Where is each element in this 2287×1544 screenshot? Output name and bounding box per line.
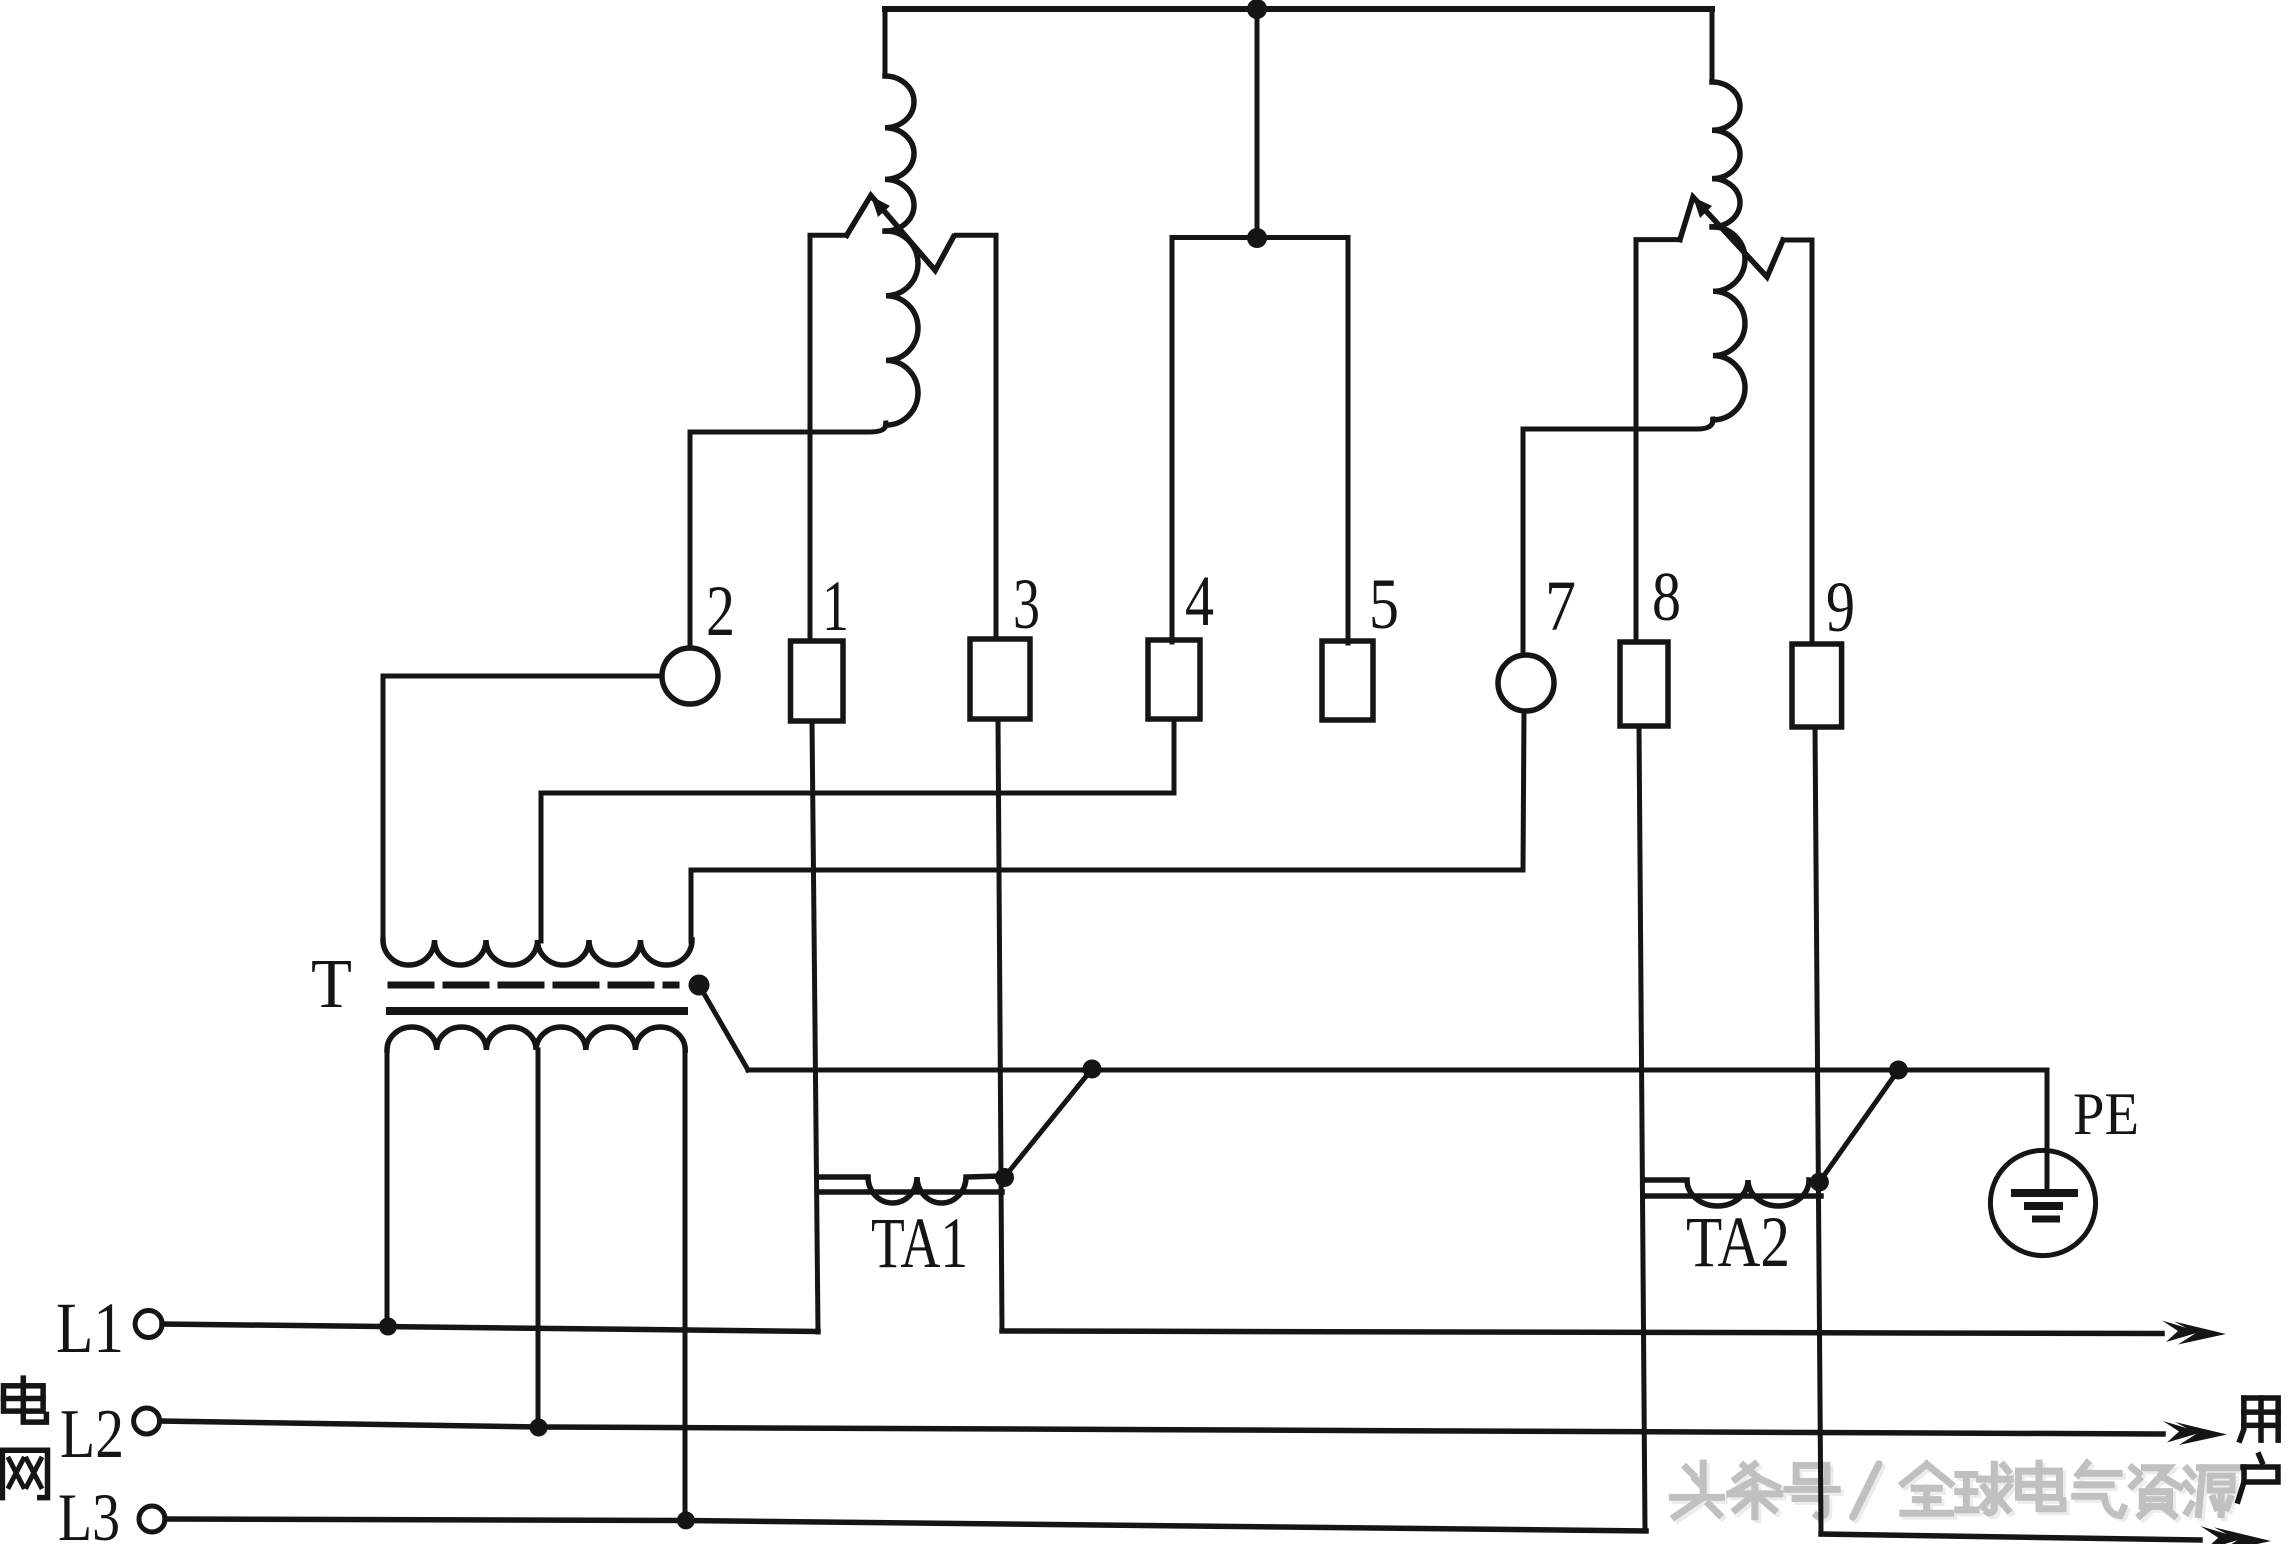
junction: screen tap node (689, 975, 710, 996)
label: terminal 2 (706, 571, 735, 651)
terminal 1 (box) (791, 641, 844, 721)
terminal: L2 source (circle) (134, 1408, 160, 1434)
terminal 4 (box) (1148, 640, 1200, 719)
arrow: L2 to user (2163, 1421, 2227, 1445)
transformer T secondary winding (top) (383, 940, 692, 965)
wire: diagonal PE bus to TA2 secondary (1819, 1070, 1898, 1182)
label: user (yong) (2240, 1398, 2278, 1440)
arrow: L1 to user (2162, 1321, 2226, 1345)
coil: element 2 lower winding (1713, 227, 1745, 420)
TA1 primary conductor (818, 1189, 1002, 1195)
arrow: element 1 adjustment arrow (847, 195, 954, 270)
watermark text (1672, 1463, 2239, 1517)
junction: top bus node (1247, 0, 1267, 19)
wire: terminal 5 top riser (1346, 238, 1351, 644)
wire: element 1 coil bottom to terminal 2 (690, 423, 886, 648)
junction: TA1 secondary right node (995, 1168, 1014, 1187)
junction: primary lead on L1 (379, 1318, 397, 1336)
wire: mid horizontal joining terminal 4 and 5 risers (1172, 235, 1348, 240)
label: terminal 3 (1013, 564, 1040, 644)
TA2 secondary winding (1645, 1180, 1819, 1206)
wire: transformer primary mid lead to L2 (536, 1050, 541, 1428)
svg-text:9: 9 (1826, 567, 1855, 647)
transformer T screen (dashed) (391, 982, 676, 989)
wire: terminal 3 bottom riser to TA1 (998, 719, 1002, 1331)
wire: element 2 top lead (1710, 9, 1715, 82)
terminal: L1 source (circle) (135, 1311, 162, 1338)
svg-text:L3: L3 (58, 1479, 120, 1544)
wire: transformer primary right lead to L3 (683, 1050, 688, 1521)
transformer T primary winding (bottom) (387, 1027, 685, 1050)
ground bar 1 (2011, 1189, 2078, 1197)
coil: element 1 lower winding (886, 231, 918, 425)
wire: L3 right section (1821, 1534, 2200, 1540)
wire: terminal 4 top riser (1170, 238, 1175, 643)
arrowhead: element 1 arrow (871, 196, 890, 217)
ground bar 3 (2032, 1216, 2060, 1223)
transformer T core (386, 1007, 688, 1015)
wire: screen tap diagonal to PE bus (699, 985, 748, 1070)
wire: PE bus drop to earth (2045, 1070, 2050, 1193)
junction: mid node above terminals 4-5 (1247, 228, 1267, 248)
wire: terminal 1 bottom riser to TA1 (812, 721, 818, 1332)
terminal 2 (circle) (662, 648, 718, 704)
label: L2 (60, 1396, 124, 1473)
label: terminal 1 (822, 566, 849, 646)
wire: terminal 3 top riser (956, 235, 996, 639)
watermark highlight (1675, 1466, 2242, 1520)
svg-text:L1: L1 (56, 1288, 124, 1368)
arrowhead: element 2 arrow (1693, 197, 1712, 218)
label: grid (dian) (4, 1378, 47, 1422)
wire: L3 left section (165, 1519, 1646, 1531)
svg-text:3: 3 (1013, 564, 1040, 644)
coil: element 1 upper winding (885, 76, 914, 231)
svg-text:TA2: TA2 (1686, 1202, 1790, 1282)
junction: PE bus to TA1 secondary (1083, 1060, 1102, 1079)
junction: PE bus to TA2 secondary (1889, 1061, 1908, 1080)
wire: terminal 4 bottom lead to transformer mid tap (541, 721, 1174, 941)
label: TA1 (871, 1203, 968, 1283)
label: terminal 8 (1652, 559, 1681, 636)
svg-text:4: 4 (1185, 561, 1214, 641)
arrow: L3 to user (2201, 1526, 2271, 1544)
terminal 8 (box) (1620, 642, 1668, 726)
coil: element 2 upper winding (1712, 82, 1740, 227)
svg-text:8: 8 (1652, 559, 1681, 636)
arrow: element 2 adjustment arrow (1680, 197, 1783, 277)
junction: primary right lead on L3 (677, 1511, 695, 1529)
svg-text:T: T (311, 946, 352, 1023)
wire: terminal 9 top riser (1783, 240, 1812, 644)
wire: diagonal PE bus to TA1 secondary (1005, 1069, 1093, 1177)
junction: TA2 secondary right node (1810, 1173, 1829, 1192)
wire: element 1 top lead (883, 9, 888, 76)
wire: element 2 coil bottom to terminal 7 (1523, 419, 1713, 655)
earth electrode PE (circle) (1990, 1150, 2095, 1255)
label: TA2 (1686, 1202, 1790, 1282)
wire: top voltage bus (885, 6, 1712, 12)
svg-text:L2: L2 (60, 1396, 124, 1473)
terminal 3 (box) (970, 639, 1030, 719)
terminal 5 (box) (1322, 641, 1373, 720)
label: terminal 5 (1369, 564, 1399, 644)
wire: terminal 8 bottom riser to TA2 (1639, 726, 1645, 1531)
svg-text:7: 7 (1545, 566, 1576, 646)
ground bar 2 (2024, 1202, 2063, 1210)
svg-text:PE: PE (2073, 1081, 2139, 1147)
wire: L2 line (160, 1421, 2163, 1434)
wire: L1 left section (162, 1324, 818, 1332)
label: terminal 4 (1185, 561, 1214, 641)
label: user (hu) (2238, 1455, 2278, 1501)
label: transformer T (311, 946, 352, 1023)
junction: primary mid lead on L2 (530, 1419, 548, 1437)
wire: top bus down to mid node (1255, 9, 1260, 238)
label: terminal 7 (1545, 566, 1576, 646)
terminal 7 (circle) (1498, 655, 1554, 711)
terminal 9 (box) (1792, 644, 1842, 727)
wire: L1 right section (1002, 1331, 2162, 1334)
label: grid (wang) (2, 1450, 47, 1497)
wire: terminal 2 left lead to transformer (383, 676, 662, 941)
wire: terminal 9 bottom riser to TA2 (1815, 727, 1821, 1534)
svg-text:2: 2 (706, 571, 735, 651)
label: L3 (58, 1479, 120, 1544)
wire: transformer primary lead to L1 (385, 1050, 390, 1327)
TA2 primary conductor (1646, 1193, 1821, 1199)
svg-text:1: 1 (822, 566, 849, 646)
label: terminal 9 (1826, 567, 1855, 647)
wire: terminal 1 top riser (810, 235, 847, 641)
terminal: L3 source (circle) (139, 1506, 165, 1532)
svg-text:TA1: TA1 (871, 1203, 968, 1283)
wire: terminal 7 bottom lead to transformer right tap (691, 711, 1524, 941)
label: L1 (56, 1288, 124, 1368)
label: PE (2073, 1081, 2139, 1147)
wire: PE bus (748, 1068, 2047, 1073)
TA1 secondary winding (818, 1176, 1003, 1203)
svg-text:5: 5 (1369, 564, 1399, 644)
wire: terminal 8 top riser (1636, 240, 1680, 642)
